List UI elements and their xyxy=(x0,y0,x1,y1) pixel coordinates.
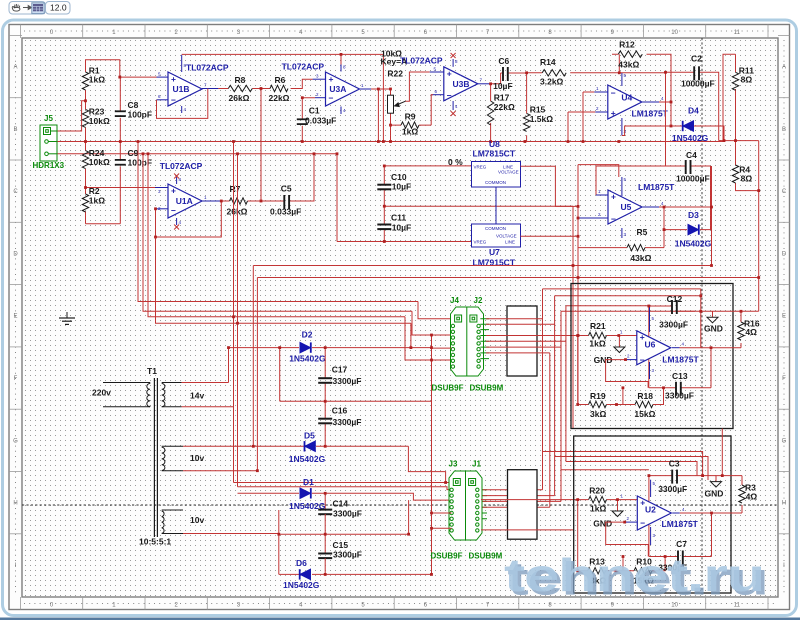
svg-text:VREG: VREG xyxy=(474,165,487,170)
op-amp U4 xyxy=(594,73,659,136)
no-connect X marks U1A power pins xyxy=(174,174,179,179)
svg-text:10kΩ: 10kΩ xyxy=(89,157,110,167)
svg-text:C7: C7 xyxy=(676,539,687,549)
wire: main mid rail y=141.5 from J5 pin2 to x=723 xyxy=(57,141,723,143)
svg-text:43kΩ: 43kΩ xyxy=(630,253,651,263)
svg-text:B: B xyxy=(782,127,786,133)
svg-text:+: + xyxy=(611,108,616,118)
resistor R11 xyxy=(732,72,738,90)
svg-text:C5: C5 xyxy=(281,184,292,194)
svg-text:8Ω: 8Ω xyxy=(741,174,753,184)
wire: 0% line into U8 xyxy=(384,165,472,167)
diode D3 xyxy=(688,224,699,234)
wire: branch verticals to lower section xyxy=(234,142,258,487)
svg-text:43kΩ: 43kΩ xyxy=(618,60,639,70)
resistor R9 xyxy=(401,122,419,128)
op-amp U1B xyxy=(157,55,219,113)
svg-text:−: − xyxy=(171,206,176,216)
svg-text:U1B: U1B xyxy=(173,84,190,94)
svg-text:TL072ACP: TL072ACP xyxy=(282,62,325,72)
resistor R2 xyxy=(82,194,88,212)
wire: J5 pin1 to R1/R23 junction xyxy=(57,101,86,131)
svg-text:10000µF: 10000µF xyxy=(676,174,710,184)
potentiometer R22 xyxy=(388,95,394,113)
wire: U8 to U7 blue link xyxy=(495,187,497,224)
svg-text:F: F xyxy=(14,376,18,382)
svg-text:tehnet.ru: tehnet.ru xyxy=(504,549,764,601)
svg-text:0.033µF: 0.033µF xyxy=(270,207,301,217)
svg-text:D4: D4 xyxy=(688,106,699,116)
svg-text:10µF: 10µF xyxy=(493,81,513,91)
capacitor C1 on U3A - input xyxy=(302,98,315,142)
svg-text:C13: C13 xyxy=(672,371,688,381)
junction dots regulator / right top xyxy=(383,71,760,279)
wire: bundle steps into J4 xyxy=(405,302,455,361)
svg-text:HDR1X3: HDR1X3 xyxy=(33,161,65,170)
wire: R2 bottom to C9 and U1A feedback loop xyxy=(86,201,222,237)
wire: U3A output to potentiometer R22 xyxy=(371,89,391,142)
svg-text:VOLTAGE: VOLTAGE xyxy=(496,234,517,239)
svg-text:LM1875T: LM1875T xyxy=(638,182,675,192)
svg-text:A: A xyxy=(782,65,786,71)
svg-text:1N5402G: 1N5402G xyxy=(672,133,709,143)
svg-text:10: 10 xyxy=(671,30,678,36)
svg-text:3300µF: 3300µF xyxy=(333,376,362,386)
wire: U1A output to R7 and x=261 drop xyxy=(221,89,314,202)
svg-text:22kΩ: 22kΩ xyxy=(494,102,515,112)
wire: row y=72.5 with R14, to x=665.5 xyxy=(527,73,666,142)
wire: D1 row xyxy=(238,493,453,509)
svg-text:DSUB9F: DSUB9F xyxy=(431,552,463,561)
capacitor C3 xyxy=(672,470,677,484)
svg-text:R22: R22 xyxy=(387,69,403,79)
resistor R3 xyxy=(739,485,745,503)
wire: U4 output row and R12 feedback xyxy=(659,101,671,103)
wire: 14v leads xyxy=(182,383,234,407)
connector J5 HDR1X3 xyxy=(40,125,57,161)
ground symbol (sheet common) xyxy=(59,318,75,324)
svg-text:R14: R14 xyxy=(540,57,556,67)
op-amp U6 xyxy=(626,306,680,379)
wire: mid rail y=534.2 xyxy=(183,500,409,574)
svg-text:1N5402G: 1N5402G xyxy=(289,454,326,464)
wire: W2 row y=277.5 xyxy=(257,277,758,279)
svg-text:GND: GND xyxy=(704,324,723,334)
wire: U4 input feeds xyxy=(568,92,595,142)
wire: J3 left pin stubs from long vertical xyxy=(432,348,452,528)
diode D2 xyxy=(300,342,311,352)
svg-text:12.0: 12.0 xyxy=(50,3,67,13)
black interface box lower xyxy=(508,470,538,540)
diode D4 xyxy=(671,102,724,141)
svg-text:E: E xyxy=(13,314,17,320)
svg-text:3300µF: 3300µF xyxy=(333,550,362,560)
svg-text:R23: R23 xyxy=(89,107,105,117)
wire: R1 column x=85.5 top hook to U1B + node xyxy=(86,60,120,224)
resistor R5 and U5 feedback xyxy=(578,247,664,249)
wire: rail2 y=153.8 from J5 pin3 to x=337 then down to U7 row xyxy=(57,154,337,242)
svg-text:U7: U7 xyxy=(489,247,500,257)
toolbar tab 1 (hand + arrow + grid icon) xyxy=(9,2,46,15)
svg-text:10kΩ: 10kΩ xyxy=(89,116,110,126)
capacitor C10 xyxy=(377,185,391,190)
svg-text:−: − xyxy=(447,91,452,101)
wire: U2 output row to R3 xyxy=(680,429,742,557)
svg-text:LM1875T: LM1875T xyxy=(632,109,669,119)
wire: C17/C16 column xyxy=(280,348,432,447)
svg-text:−: − xyxy=(640,355,645,365)
resistor R13 xyxy=(578,570,623,572)
arrow icon xyxy=(23,6,32,10)
wire: U6 output row to R16 xyxy=(680,311,759,388)
svg-text:C: C xyxy=(13,189,18,195)
svg-text:F: F xyxy=(782,376,786,382)
wire: U8 output hook to common vertical xyxy=(521,166,579,206)
svg-text:3kΩ: 3kΩ xyxy=(590,409,606,419)
svg-text:3300µF: 3300µF xyxy=(665,391,694,401)
svg-text:14v: 14v xyxy=(190,391,204,401)
svg-text:1N5402G: 1N5402G xyxy=(283,580,320,590)
op-amp U1A xyxy=(155,177,221,225)
connector pair J4 / J2 DSUB9F DSUB9M xyxy=(451,307,484,376)
svg-text:10µF: 10µF xyxy=(392,223,412,233)
resistor R6 xyxy=(270,85,288,91)
svg-text:U2: U2 xyxy=(645,505,656,515)
svg-text:220v: 220v xyxy=(92,388,111,398)
svg-text:1.5kΩ: 1.5kΩ xyxy=(530,114,554,124)
svg-text:D2: D2 xyxy=(302,330,313,340)
resistor R8 xyxy=(228,85,252,91)
wire: U5 output to D3 and R5 xyxy=(659,166,712,266)
wire: U7 bottom rail from x=337 xyxy=(337,241,472,243)
svg-text:TL072ACP: TL072ACP xyxy=(186,63,229,73)
svg-text:J5: J5 xyxy=(44,114,53,123)
svg-text:TL072ACP: TL072ACP xyxy=(160,161,203,171)
svg-text:C4: C4 xyxy=(686,150,697,160)
voltage regulator U8 LM7815CT xyxy=(472,162,521,188)
op-amp U3B xyxy=(430,59,491,110)
op-amp U3A xyxy=(313,65,371,115)
svg-text:10v: 10v xyxy=(190,453,204,463)
svg-text:H: H xyxy=(13,501,17,507)
status bar bottom sliver xyxy=(0,618,800,620)
capacitor C5 xyxy=(284,195,289,209)
svg-text:+: + xyxy=(171,74,176,84)
wire: J2/J1 right bundle to amp blocks xyxy=(479,319,489,519)
svg-text:A: A xyxy=(13,65,17,71)
wire: C10/C11 column xyxy=(384,166,573,242)
svg-text:R21: R21 xyxy=(590,321,606,331)
wire: row y=140.6 under R11 xyxy=(719,141,759,312)
svg-text:C1: C1 xyxy=(309,106,320,116)
wire: U4 pin3 hook to D4 row xyxy=(622,126,671,136)
diode D5 xyxy=(305,441,316,451)
svg-text:1kΩ: 1kΩ xyxy=(89,75,105,85)
svg-text:VREG: VREG xyxy=(474,240,487,245)
capacitor C13 xyxy=(676,382,681,396)
svg-text:DSUB9M: DSUB9M xyxy=(469,552,503,561)
svg-text:−: − xyxy=(171,95,176,105)
svg-text:R7: R7 xyxy=(230,184,241,194)
resistor R24 xyxy=(82,151,88,169)
capacitor C11 xyxy=(377,225,391,230)
svg-text:B: B xyxy=(13,127,17,133)
wire: U1B output row with R8 R6 xyxy=(218,79,312,88)
capacitor C8 column with C9 xyxy=(119,77,121,224)
svg-text:4Ω: 4Ω xyxy=(745,327,757,337)
svg-text:TL072ACP: TL072ACP xyxy=(400,56,443,66)
svg-text:D: D xyxy=(782,251,787,257)
toolbar tab 2 (12.0) xyxy=(46,2,71,15)
svg-text:C3: C3 xyxy=(669,459,680,469)
voltage regulator U7 LM7915CT xyxy=(472,224,521,247)
svg-text:DSUB9M: DSUB9M xyxy=(470,384,504,393)
wire: U1B + input row xyxy=(120,76,157,78)
resistor R21 xyxy=(578,336,637,405)
wire: U7 output row to common vertical xyxy=(521,235,579,237)
svg-text:GND: GND xyxy=(593,519,612,529)
svg-text:1kΩ: 1kΩ xyxy=(402,127,418,137)
resistor R15 xyxy=(523,113,529,131)
resistor R17 xyxy=(487,101,493,125)
svg-text:R5: R5 xyxy=(637,227,648,237)
svg-text:0.033µF: 0.033µF xyxy=(305,116,336,126)
svg-text:−: − xyxy=(611,214,616,224)
resistor R16 xyxy=(738,322,744,340)
resistor R18 xyxy=(623,388,664,405)
capacitor C17 xyxy=(318,378,332,383)
hand icon xyxy=(12,4,20,11)
svg-text:R8: R8 xyxy=(235,75,246,85)
svg-text:0 %: 0 % xyxy=(448,157,463,167)
wire: C12 row and column x=648.8 xyxy=(649,306,713,388)
svg-text:1kΩ: 1kΩ xyxy=(590,504,606,514)
svg-text:+: + xyxy=(171,186,176,196)
svg-text:COMMON: COMMON xyxy=(485,226,506,231)
svg-text:U5: U5 xyxy=(621,202,632,212)
grid/table icon (selected) xyxy=(32,3,44,14)
svg-text:+: + xyxy=(447,69,452,79)
svg-text:R9: R9 xyxy=(405,112,416,122)
svg-text:E: E xyxy=(782,314,786,320)
svg-text:−: − xyxy=(640,518,645,528)
diode D1 xyxy=(300,488,311,498)
resistor R19 xyxy=(578,404,623,406)
resistor R10 xyxy=(623,557,665,571)
black interface box upper xyxy=(507,306,537,376)
svg-text:J3: J3 xyxy=(449,460,458,469)
svg-text:U6: U6 xyxy=(645,340,656,350)
svg-text:D3: D3 xyxy=(688,210,699,220)
svg-text:11: 11 xyxy=(734,30,741,36)
svg-text:1kΩ: 1kΩ xyxy=(589,339,605,349)
svg-text:U8: U8 xyxy=(489,139,500,149)
capacitor C6 xyxy=(501,72,527,74)
wire: rail1 hook up to R11 xyxy=(723,54,736,141)
svg-text:D: D xyxy=(13,251,18,257)
wire: C13 row xyxy=(649,387,711,389)
svg-text:10:5:5:1: 10:5:5:1 xyxy=(139,537,171,547)
capacitor C7 xyxy=(678,551,683,565)
resistor R1 xyxy=(82,72,88,90)
resistor R23 xyxy=(82,109,88,127)
svg-text:C17: C17 xyxy=(332,365,348,375)
resistor R20 xyxy=(578,500,638,571)
connector pair J3 / J1 DSUB9F DSUB9M xyxy=(449,471,482,540)
svg-text:4Ω: 4Ω xyxy=(746,492,758,502)
svg-text:22kΩ: 22kΩ xyxy=(269,93,290,103)
svg-text:C9: C9 xyxy=(128,148,139,158)
svg-text:U3B: U3B xyxy=(453,79,470,89)
svg-text:3300µF: 3300µF xyxy=(659,320,688,330)
wire: op-amp power rail y=54.4 xyxy=(182,54,384,141)
block frame 2 xyxy=(574,436,731,593)
svg-text:U1A: U1A xyxy=(176,196,193,206)
wire: U2 - feedback xyxy=(606,522,649,571)
capacitor C2 xyxy=(666,72,719,140)
svg-text:J2: J2 xyxy=(474,296,483,305)
svg-text:C6: C6 xyxy=(498,56,509,66)
svg-text:1N5402G: 1N5402G xyxy=(289,354,326,364)
junction dots block2 xyxy=(576,474,723,572)
wire: C3 row and column x=648.9 xyxy=(649,476,703,557)
svg-text:R12: R12 xyxy=(619,40,635,50)
svg-text:R19: R19 xyxy=(590,391,606,401)
wire: D6 row xyxy=(279,558,432,574)
wire: D2 row y=347.6 xyxy=(229,335,432,574)
svg-text:C16: C16 xyxy=(332,406,348,416)
watermark tehnet.ru xyxy=(504,549,768,605)
svg-text:3.2kΩ: 3.2kΩ xyxy=(540,77,564,87)
ground GND1b right of C3 xyxy=(711,476,722,488)
svg-text:C12: C12 xyxy=(667,294,683,304)
svg-text:−: − xyxy=(329,93,334,103)
svg-text:−: − xyxy=(611,88,616,98)
svg-text:100pF: 100pF xyxy=(128,110,153,120)
svg-text:G: G xyxy=(782,438,787,444)
svg-text:10µF: 10µF xyxy=(392,182,412,192)
svg-text:D5: D5 xyxy=(304,431,315,441)
diode D6 xyxy=(300,569,311,579)
wire: long vertical x=573 from U7/C11 row xyxy=(572,206,574,428)
svg-text:T1: T1 xyxy=(147,366,157,376)
wire: U1A + input row from R24/R2 junction xyxy=(86,187,156,189)
svg-text:D1: D1 xyxy=(303,477,314,487)
wire: long vertical x=578 (common) xyxy=(578,165,619,405)
svg-text:C15: C15 xyxy=(333,540,349,550)
svg-text:C14: C14 xyxy=(333,499,349,509)
junction dots top-left xyxy=(84,53,528,238)
wire: 10v coil2 leads xyxy=(183,446,446,482)
svg-text:3300µF: 3300µF xyxy=(333,509,362,519)
capacitor C4 xyxy=(596,72,711,229)
svg-text:+: + xyxy=(611,192,616,202)
svg-text:1N5402G: 1N5402G xyxy=(675,239,712,249)
wire: J1 rows into amp block 2 xyxy=(481,500,578,530)
svg-text:LM7815CT: LM7815CT xyxy=(473,149,516,159)
svg-text:C: C xyxy=(782,189,787,195)
svg-text:8Ω: 8Ω xyxy=(741,75,753,85)
svg-text:D6: D6 xyxy=(296,558,307,568)
svg-text:G: G xyxy=(13,438,18,444)
block frame 1 xyxy=(571,284,733,429)
svg-text:COMMON: COMMON xyxy=(485,180,506,185)
resistor R14 xyxy=(542,70,566,76)
svg-text:15kΩ: 15kΩ xyxy=(634,409,655,419)
svg-text:U3A: U3A xyxy=(329,84,346,94)
ground GND1 right of C12 xyxy=(707,311,718,323)
svg-text:10v: 10v xyxy=(190,515,204,525)
svg-text:GND: GND xyxy=(705,489,724,499)
capacitor C12 xyxy=(672,300,677,314)
svg-text:LM1875T: LM1875T xyxy=(662,519,699,529)
svg-text:H: H xyxy=(782,501,786,507)
svg-text:LM1875T: LM1875T xyxy=(662,355,699,365)
wire: R22 wiper to U3B + input xyxy=(406,72,430,101)
capacitor C9 xyxy=(115,160,126,165)
resistor R7 xyxy=(230,198,248,204)
svg-text:LINE: LINE xyxy=(505,240,515,245)
svg-text:R6: R6 xyxy=(275,75,286,85)
wire: W1 row y=265.5 xyxy=(253,265,711,267)
capacitor C16 xyxy=(318,419,332,424)
svg-text:DSUB9F: DSUB9F xyxy=(432,384,464,393)
op-amp U5 xyxy=(578,177,659,238)
svg-text:3300µF: 3300µF xyxy=(658,484,687,494)
svg-text:C8: C8 xyxy=(128,100,139,110)
wire: U3B output row, R17 top, C6 xyxy=(491,73,501,142)
capacitor C15 xyxy=(318,554,332,559)
svg-text:C10: C10 xyxy=(391,172,407,182)
wire: C7 row xyxy=(649,556,712,558)
svg-text:R20: R20 xyxy=(589,486,605,496)
wire: U3B - input loop to R9 xyxy=(391,95,434,125)
op-amp U2 xyxy=(625,480,680,545)
svg-text:1kΩ: 1kΩ xyxy=(89,196,105,206)
ground GND2 under R21 xyxy=(618,336,620,342)
svg-text:U4: U4 xyxy=(621,93,632,103)
wire: U6 - feedback xyxy=(606,360,649,405)
svg-text:R18: R18 xyxy=(637,391,653,401)
wire bundle from top section down-left xyxy=(138,142,418,324)
svg-text:3300µF: 3300µF xyxy=(333,417,362,427)
svg-text:C2: C2 xyxy=(691,54,702,64)
ground GND2b under R20 xyxy=(617,500,619,505)
svg-text:26kΩ: 26kΩ xyxy=(229,93,250,103)
junction dots bottom left xyxy=(277,481,447,576)
svg-text:J1: J1 xyxy=(472,460,481,469)
svg-text:R15: R15 xyxy=(530,105,546,115)
svg-text:VOLTAGE: VOLTAGE xyxy=(498,170,519,175)
svg-text:+: + xyxy=(329,74,334,84)
junction dots middle band xyxy=(137,140,433,472)
resistor R12 xyxy=(612,54,671,102)
svg-text:J4: J4 xyxy=(450,296,459,305)
svg-text:10000µF: 10000µF xyxy=(681,79,715,89)
wire: rows y=482.5 and y=486.7 xyxy=(234,483,456,490)
resistor R4 xyxy=(736,141,759,191)
wire: U1B feedback loop below xyxy=(157,89,208,119)
capacitor C14 xyxy=(318,510,332,515)
junction dots block1 xyxy=(576,294,742,406)
svg-text:C11: C11 xyxy=(391,213,406,223)
